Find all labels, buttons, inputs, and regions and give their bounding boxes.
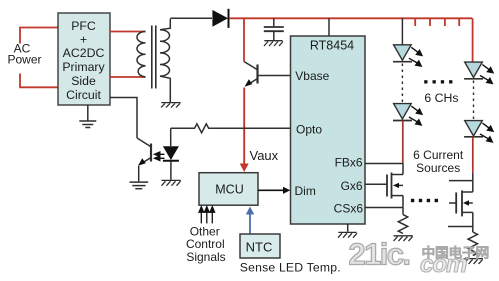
wire PFC to transformer primary bottom (red)	[110, 76, 146, 78]
wire FBx6 line	[365, 163, 403, 165]
transistor M2 (right MOSFET)	[448, 172, 473, 232]
wire PFC to transformer primary top (red)	[110, 31, 146, 33]
ground under R3	[464, 259, 483, 264]
ground under optocoupler LED	[162, 180, 181, 185]
wire MCU to Dim (arrow)	[258, 189, 284, 191]
diode D1	[212, 10, 228, 27]
svg-text:21ic.: 21ic.	[349, 237, 410, 272]
ground under transformer secondary	[161, 103, 181, 108]
block NTC	[240, 234, 280, 258]
transformer T1 core	[151, 26, 153, 89]
ground under phototransistor	[130, 182, 149, 189]
svg-text:Opto: Opto	[296, 123, 322, 137]
svg-text:RT8454: RT8454	[310, 39, 354, 53]
svg-text:Sense LED Temp.: Sense LED Temp.	[240, 260, 341, 274]
svg-text:Dim: Dim	[295, 184, 316, 198]
node dots between MOSFETs	[411, 199, 438, 202]
svg-text:Vbase: Vbase	[295, 69, 329, 83]
wire NTC to MCU (blue arrow)	[249, 213, 251, 235]
block PFC+AC2DC primary side circuit	[58, 13, 110, 105]
svg-text:Vaux: Vaux	[250, 148, 279, 163]
node Other Control Signals label	[186, 225, 226, 265]
transformer T1 secondary winding	[160, 19, 170, 103]
svg-text:Control: Control	[186, 237, 225, 251]
ground under PFC box	[79, 105, 96, 128]
svg-text:MCU: MCU	[215, 183, 243, 197]
svg-text:Power: Power	[7, 53, 41, 67]
optocoupler light arrows	[155, 152, 165, 160]
wire dashed LED1-LED2	[401, 64, 403, 103]
wire CSx6 line	[365, 207, 403, 209]
wire RT8454 ground stem	[347, 224, 349, 232]
ground under RT8454	[338, 232, 357, 237]
svg-text:Sources: Sources	[416, 161, 460, 175]
LED D6	[465, 121, 483, 136]
svg-text:AC2DC: AC2DC	[63, 46, 105, 60]
transistor Q1 emitter arrowhead	[245, 79, 253, 87]
svg-text:Primary: Primary	[62, 60, 105, 74]
resistor R3 (sense)	[468, 232, 477, 256]
wire Vaux (red, arrow into MCU)	[243, 88, 245, 166]
LED D3 light arrows	[409, 47, 422, 66]
svg-text:FBx6: FBx6	[335, 155, 363, 169]
optocoupler phototransistor emitter arrowhead	[138, 158, 146, 165]
node 6 Current Sources label	[413, 148, 464, 175]
LED D4 light arrows	[409, 106, 422, 125]
other control signal arrows	[199, 207, 215, 224]
wire secondary top to diode	[170, 17, 212, 19]
optocoupler LED D2	[163, 146, 179, 160]
op-amp U1 RT8454 box	[291, 36, 366, 224]
optocoupler phototransistor U2a	[137, 138, 151, 181]
LED D5 light arrows	[480, 65, 493, 84]
wire rail drop to LED1	[401, 18, 403, 45]
ground under R2	[394, 236, 413, 241]
wire rail drop to Q1 collector (red)	[243, 18, 245, 61]
wire PFC to optocoupler collector	[110, 98, 137, 139]
capacitor C1	[264, 27, 284, 40]
wire dashed LED5-LED6	[473, 81, 475, 120]
rail ticks	[415, 18, 459, 26]
svg-text:+: +	[80, 33, 87, 47]
LED D6 light arrows	[480, 123, 493, 142]
wire main red rail	[229, 17, 472, 19]
transistor M2 arrow	[463, 200, 469, 205]
wire rail corner to right string (red)	[472, 18, 474, 62]
LED D3	[394, 45, 412, 60]
svg-text:Gx6: Gx6	[341, 179, 363, 193]
svg-text:PFC: PFC	[71, 19, 96, 33]
svg-text:中国电子网: 中国电子网	[422, 245, 489, 261]
wire rail drop to capacitor	[273, 18, 275, 26]
wire rail drop to RT8454 top	[328, 18, 330, 36]
LED D4	[394, 104, 412, 119]
wire LED cathode to ground	[170, 161, 172, 180]
svg-text:Side: Side	[71, 74, 96, 88]
svg-text:CSx6: CSx6	[334, 202, 364, 216]
transistor M1 (left MOSFET)	[387, 164, 403, 215]
transistor Q1	[244, 62, 291, 85]
wire LED6 down (red)	[472, 137, 474, 173]
node AC Power label	[7, 41, 41, 66]
svg-text:Signals: Signals	[186, 250, 225, 264]
svg-text:Circuit: Circuit	[66, 88, 101, 102]
resistor R1 on opto line	[171, 124, 291, 133]
svg-text:NTC: NTC	[246, 239, 273, 254]
wire Gx6 line	[365, 183, 387, 185]
LED D5 (right string)	[465, 62, 483, 77]
wire AC bracket (red)	[20, 28, 58, 88]
optocoupler LED (anode wire)	[170, 128, 172, 146]
transformer T1 primary winding	[137, 32, 146, 78]
wire LED2 to FB node (dark red)	[402, 121, 404, 164]
block MCU	[199, 173, 258, 206]
svg-text:6 CHs: 6 CHs	[424, 91, 458, 105]
watermark 21ic.com	[349, 237, 489, 279]
transistor M1 arrow	[393, 183, 399, 188]
resistor R2 (sense)	[398, 215, 407, 234]
node dots 6CHs	[424, 80, 452, 83]
ground under capacitor C1	[264, 41, 283, 46]
